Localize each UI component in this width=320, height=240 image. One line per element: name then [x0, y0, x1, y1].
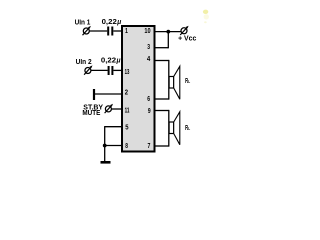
svg-text:L: L	[188, 79, 190, 85]
svg-text:3: 3	[147, 44, 150, 51]
svg-text:7: 7	[148, 143, 151, 150]
svg-text:MUTE: MUTE	[82, 110, 100, 117]
svg-text:11: 11	[125, 107, 130, 114]
svg-text:L: L	[188, 126, 190, 132]
svg-text:6: 6	[147, 96, 150, 103]
svg-text:μ: μ	[116, 17, 122, 26]
svg-text:0,22: 0,22	[101, 55, 116, 64]
svg-text:4: 4	[147, 56, 150, 63]
svg-text:10: 10	[144, 28, 150, 35]
svg-text:1: 1	[125, 28, 128, 35]
svg-text:2: 2	[125, 90, 128, 97]
svg-text:μ: μ	[116, 55, 122, 64]
svg-text:UIn 1: UIn 1	[75, 20, 91, 27]
svg-text:9: 9	[148, 108, 151, 115]
svg-text:8: 8	[125, 143, 128, 150]
svg-text:UIn 2: UIn 2	[76, 59, 92, 66]
svg-text:+ Vcc: + Vcc	[178, 36, 196, 43]
svg-text:13: 13	[125, 69, 130, 76]
svg-text:0,22: 0,22	[102, 17, 117, 26]
svg-text:5: 5	[125, 124, 128, 131]
